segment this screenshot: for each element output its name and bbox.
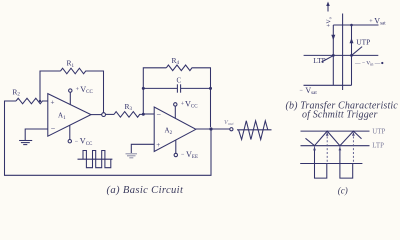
node junction R3/R4/C at A2 inverting input	[142, 113, 145, 116]
svg-text:+: +	[76, 87, 80, 93]
svg-text:VCC: VCC	[185, 99, 198, 109]
op-amp A1	[48, 94, 91, 137]
square-wave symbol (A1 output waveform)	[78, 151, 113, 168]
svg-text:A2: A2	[165, 126, 173, 136]
svg-text:−: −	[75, 139, 79, 145]
node Vout terminal	[224, 119, 234, 131]
svg-text:−: −	[51, 125, 56, 134]
svg-text:— − Vin —: — − Vin —	[354, 60, 381, 66]
svg-text:−: −	[300, 88, 304, 94]
svg-text:LTP: LTP	[372, 143, 384, 150]
hysteresis loop top +Vsat line	[333, 24, 378, 26]
resistor R4 feedback	[143, 56, 210, 127]
op-amp A2	[154, 107, 196, 152]
arrowhead at peak 2	[352, 132, 355, 136]
svg-text:+Vo: +Vo	[327, 17, 333, 27]
svg-text:VEE: VEE	[186, 150, 198, 160]
triangle waveform	[306, 131, 362, 146]
capacitor C	[143, 77, 210, 93]
caption (b) Transfer Characteristic of Schmitt Trigger	[286, 101, 399, 121]
dashed timing line valley 2	[339, 147, 341, 151]
square waveform	[315, 150, 353, 179]
node C right junction	[209, 87, 212, 90]
arrowhead at valley 2	[339, 147, 342, 151]
svg-text:+: +	[369, 19, 373, 25]
triangle-wave symbol (Vout waveform)	[237, 121, 272, 140]
arrowhead at peak 1	[326, 132, 329, 136]
node UTP top corner	[350, 24, 353, 27]
axis arrow annotation +Vo	[326, 2, 332, 28]
node LTP crossing	[332, 54, 335, 57]
-Vee terminal of A2	[174, 140, 198, 160]
node vertical axis Vo	[342, 14, 344, 91]
svg-text:R1: R1	[67, 59, 75, 69]
svg-text:C: C	[177, 77, 182, 85]
node horizontal axis Vin	[304, 54, 379, 56]
arrowhead at valley 1	[313, 147, 316, 151]
+Vcc terminal of A1	[69, 85, 94, 105]
+Vcc terminal of A2	[174, 99, 199, 118]
svg-text:VCC: VCC	[80, 137, 93, 147]
resistor R3	[106, 102, 144, 117]
node C left junction	[142, 87, 145, 90]
svg-text:+: +	[51, 98, 55, 106]
svg-text:VCC: VCC	[80, 85, 93, 95]
dashed timing line peak 2	[352, 133, 354, 164]
UTP level line	[301, 130, 370, 132]
LTP level line	[301, 145, 370, 147]
wire left feedback loop from A2 output to R2	[5, 101, 212, 175]
wire to A2 inverting input	[143, 113, 154, 115]
svg-text:−: −	[157, 110, 162, 119]
label LTP with pointer	[313, 56, 333, 65]
svg-text:(a) Basic Circuit: (a) Basic Circuit	[107, 185, 184, 196]
dashed timing line peak 1	[326, 133, 328, 164]
svg-text:of Schmitt Trigger: of Schmitt Trigger	[302, 109, 377, 120]
svg-text:R4: R4	[172, 56, 180, 66]
ground at A1 inverting input	[19, 141, 32, 145]
svg-text:+: +	[156, 141, 160, 149]
resistor R2	[12, 87, 47, 103]
svg-text:R2: R2	[12, 87, 20, 97]
node junction A2 output feedback	[209, 127, 212, 130]
hysteresis loop left edge (LTP transition, down)	[331, 25, 335, 85]
svg-text:−: −	[181, 152, 185, 158]
node A1 output terminal	[91, 113, 106, 117]
resistor R1	[40, 59, 104, 113]
-Vcc terminal of A1	[68, 125, 93, 146]
svg-text:R3: R3	[125, 102, 133, 112]
dashed timing line valley 1	[314, 147, 316, 151]
wire A2 noninverting input to ground	[131, 144, 154, 153]
node junction R1/R2/+input	[39, 100, 41, 102]
svg-text:UTP: UTP	[372, 128, 385, 135]
node UTP crossing	[350, 54, 353, 57]
hysteresis loop right edge (UTP transition, up)	[350, 25, 354, 85]
wire A2 output	[196, 128, 230, 130]
wire inverting input A1 to ground	[25, 129, 48, 140]
ground at A2 noninverting input	[126, 154, 138, 158]
svg-text:A1: A1	[58, 112, 66, 122]
hysteresis loop bottom -Vsat line	[304, 84, 352, 86]
square-wave reference line	[300, 163, 362, 165]
svg-text:Vout: Vout	[224, 119, 234, 126]
svg-text:(c): (c)	[338, 186, 348, 196]
svg-text:Vsat: Vsat	[305, 86, 317, 96]
label UTP with pointer	[352, 37, 370, 55]
svg-text:UTP: UTP	[356, 37, 370, 46]
svg-text:Vsat: Vsat	[374, 17, 386, 27]
